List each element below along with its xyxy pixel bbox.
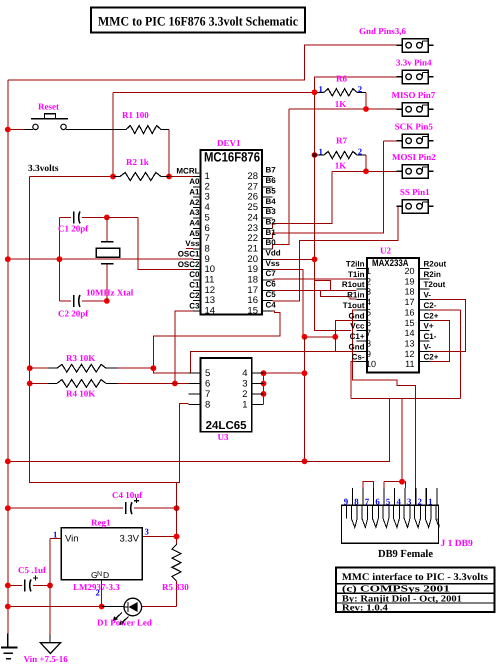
svg-text:Vin +7.5-16: Vin +7.5-16 bbox=[24, 654, 69, 664]
svg-text:1: 1 bbox=[53, 530, 57, 540]
svg-text:MCRL: MCRL bbox=[176, 167, 199, 176]
svg-text:3: 3 bbox=[407, 497, 412, 507]
svg-text:R7: R7 bbox=[336, 136, 347, 146]
svg-text:C7: C7 bbox=[266, 269, 277, 278]
svg-text:Gnd Pins3,6: Gnd Pins3,6 bbox=[359, 26, 407, 36]
svg-text:C1+: C1+ bbox=[350, 332, 365, 341]
svg-text:28: 28 bbox=[247, 171, 258, 182]
svg-text:C1 20pf: C1 20pf bbox=[58, 224, 89, 234]
svg-text:R2in: R2in bbox=[424, 270, 441, 279]
svg-text:OSC1: OSC1 bbox=[178, 250, 200, 259]
svg-text:MISO Pin7: MISO Pin7 bbox=[392, 90, 436, 100]
svg-text:T2out: T2out bbox=[424, 280, 446, 289]
svg-text:2: 2 bbox=[418, 497, 423, 507]
svg-text:3: 3 bbox=[366, 287, 371, 297]
svg-text:C5 .1uf: C5 .1uf bbox=[18, 565, 47, 575]
svg-text:1K: 1K bbox=[335, 99, 347, 109]
svg-text:N: N bbox=[97, 571, 102, 578]
svg-text:2: 2 bbox=[358, 84, 363, 94]
svg-text:13: 13 bbox=[404, 338, 414, 348]
svg-text:R6: R6 bbox=[336, 74, 347, 84]
svg-text:2: 2 bbox=[242, 389, 247, 400]
svg-text:23: 23 bbox=[247, 223, 258, 234]
svg-text:2: 2 bbox=[96, 588, 101, 598]
svg-text:10MHz Xtal: 10MHz Xtal bbox=[86, 288, 134, 298]
svg-text:7: 7 bbox=[365, 497, 370, 507]
svg-text:20: 20 bbox=[404, 266, 414, 276]
svg-text:15: 15 bbox=[247, 306, 258, 317]
svg-text:DEV1: DEV1 bbox=[217, 138, 241, 148]
svg-text:5: 5 bbox=[366, 307, 371, 317]
svg-text:Vin: Vin bbox=[65, 534, 79, 545]
svg-text:MOSI Pin2: MOSI Pin2 bbox=[392, 152, 436, 162]
svg-text:C6: C6 bbox=[266, 280, 277, 289]
svg-text:C4: C4 bbox=[266, 300, 277, 309]
svg-text:R4 10K: R4 10K bbox=[66, 389, 95, 399]
svg-text:24: 24 bbox=[247, 212, 258, 223]
svg-text:24LC65: 24LC65 bbox=[206, 420, 248, 432]
svg-text:B1: B1 bbox=[266, 228, 277, 237]
svg-text:U3: U3 bbox=[218, 432, 229, 442]
svg-text:15: 15 bbox=[404, 318, 414, 328]
svg-text:7: 7 bbox=[205, 233, 210, 244]
svg-text:3.3V: 3.3V bbox=[119, 534, 139, 545]
svg-text:Reset: Reset bbox=[38, 102, 59, 112]
svg-text:2: 2 bbox=[205, 181, 210, 192]
svg-text:R1 100: R1 100 bbox=[122, 110, 149, 120]
svg-text:Vss: Vss bbox=[185, 239, 200, 248]
svg-text:B7: B7 bbox=[266, 166, 277, 175]
svg-text:MMC interface to PIC - 3.3volt: MMC interface to PIC - 3.3volts bbox=[342, 572, 488, 583]
svg-text:8: 8 bbox=[205, 243, 210, 254]
svg-text:14: 14 bbox=[404, 328, 414, 338]
svg-text:20: 20 bbox=[247, 254, 258, 265]
svg-text:A0: A0 bbox=[189, 177, 200, 186]
svg-text:4: 4 bbox=[396, 497, 401, 507]
svg-text:R1in: R1in bbox=[347, 291, 364, 300]
svg-text:C2: C2 bbox=[189, 291, 200, 300]
svg-text:C5: C5 bbox=[266, 290, 277, 299]
svg-text:R2 1k: R2 1k bbox=[126, 157, 149, 167]
svg-text:3: 3 bbox=[145, 527, 150, 537]
svg-text:6: 6 bbox=[366, 318, 371, 328]
svg-text:Reg1: Reg1 bbox=[91, 518, 111, 528]
svg-text:DB9 Female: DB9 Female bbox=[378, 548, 433, 560]
svg-text:C2+: C2+ bbox=[424, 311, 439, 320]
svg-text:6: 6 bbox=[205, 379, 210, 390]
svg-text:A2: A2 bbox=[189, 198, 200, 207]
svg-text:12: 12 bbox=[404, 349, 414, 359]
svg-text:B4: B4 bbox=[266, 197, 277, 206]
svg-text:R5 330: R5 330 bbox=[162, 582, 189, 592]
svg-text:Gnd: Gnd bbox=[349, 342, 365, 351]
svg-text:SCK Pin5: SCK Pin5 bbox=[395, 122, 434, 132]
svg-text:5: 5 bbox=[205, 368, 210, 379]
svg-text:16: 16 bbox=[404, 307, 414, 317]
svg-text:C2-: C2- bbox=[424, 301, 437, 310]
svg-text:T1in: T1in bbox=[348, 270, 365, 279]
svg-text:MC16F876: MC16F876 bbox=[204, 150, 260, 165]
svg-text:1: 1 bbox=[319, 147, 323, 157]
svg-text:Vdd: Vdd bbox=[266, 249, 281, 258]
svg-text:8: 8 bbox=[354, 497, 359, 507]
svg-text:5: 5 bbox=[386, 497, 391, 507]
svg-text:C2+: C2+ bbox=[424, 353, 439, 362]
svg-text:J 1 DB9: J 1 DB9 bbox=[441, 539, 473, 549]
svg-text:25: 25 bbox=[247, 202, 258, 213]
svg-text:6: 6 bbox=[375, 497, 380, 507]
svg-text:13: 13 bbox=[205, 295, 216, 306]
svg-text:2: 2 bbox=[366, 276, 371, 286]
svg-text:2: 2 bbox=[358, 146, 363, 156]
svg-text:18: 18 bbox=[247, 275, 258, 286]
svg-text:4: 4 bbox=[205, 202, 210, 213]
svg-text:OSC2: OSC2 bbox=[178, 260, 200, 269]
svg-text:11: 11 bbox=[405, 359, 414, 369]
svg-text:C3: C3 bbox=[189, 301, 200, 310]
svg-text:18: 18 bbox=[404, 287, 414, 297]
svg-text:1K: 1K bbox=[335, 161, 347, 171]
svg-text:9: 9 bbox=[205, 254, 210, 265]
svg-text:U2: U2 bbox=[380, 246, 391, 256]
svg-text:D: D bbox=[103, 570, 109, 580]
svg-text:V-: V- bbox=[424, 342, 432, 351]
svg-text:26: 26 bbox=[247, 192, 258, 203]
svg-text:1: 1 bbox=[242, 399, 247, 410]
svg-text:C4 10uf: C4 10uf bbox=[112, 490, 143, 500]
svg-text:B2: B2 bbox=[266, 217, 277, 226]
svg-text:17: 17 bbox=[247, 285, 258, 296]
svg-text:R3 10K: R3 10K bbox=[66, 353, 95, 363]
svg-text:10: 10 bbox=[205, 264, 216, 275]
svg-text:D1 Power Led: D1 Power Led bbox=[97, 618, 152, 628]
svg-text:1: 1 bbox=[366, 266, 371, 276]
svg-text:7: 7 bbox=[205, 389, 210, 400]
svg-text:3.3volts: 3.3volts bbox=[28, 164, 59, 174]
svg-text:Vcc: Vcc bbox=[350, 322, 365, 331]
svg-text:14: 14 bbox=[205, 306, 216, 317]
svg-text:3: 3 bbox=[205, 192, 210, 203]
svg-text:9: 9 bbox=[344, 497, 349, 507]
svg-text:5: 5 bbox=[205, 212, 210, 223]
svg-text:C2 20pf: C2 20pf bbox=[58, 309, 89, 319]
svg-text:C0: C0 bbox=[189, 270, 200, 279]
svg-text:3: 3 bbox=[242, 379, 247, 390]
svg-text:MMC to PIC 16F876 3.3volt Sche: MMC to PIC 16F876 3.3volt Schematic bbox=[98, 14, 298, 29]
svg-text:6: 6 bbox=[205, 223, 210, 234]
svg-text:9: 9 bbox=[366, 349, 371, 359]
svg-text:3.3v Pin4: 3.3v Pin4 bbox=[396, 58, 432, 68]
svg-text:A1: A1 bbox=[189, 187, 200, 196]
svg-text:22: 22 bbox=[247, 233, 258, 244]
svg-text:27: 27 bbox=[247, 181, 258, 192]
svg-text:A5: A5 bbox=[189, 229, 200, 238]
svg-text:Rev: 1.0.4: Rev: 1.0.4 bbox=[342, 603, 388, 613]
svg-text:1: 1 bbox=[205, 171, 210, 182]
svg-text:10: 10 bbox=[366, 359, 376, 369]
svg-text:4: 4 bbox=[242, 368, 247, 379]
svg-text:1: 1 bbox=[428, 497, 432, 507]
svg-text:21: 21 bbox=[247, 243, 258, 254]
svg-text:19: 19 bbox=[404, 276, 414, 286]
svg-text:V+: V+ bbox=[424, 322, 434, 331]
svg-text:Gnd: Gnd bbox=[349, 311, 365, 320]
svg-text:C1: C1 bbox=[189, 281, 200, 290]
svg-text:T2iIn: T2iIn bbox=[346, 260, 365, 269]
svg-text:(c) COMPSys 2001: (c) COMPSys 2001 bbox=[342, 584, 450, 594]
svg-text:11: 11 bbox=[205, 275, 215, 286]
svg-text:17: 17 bbox=[404, 297, 414, 307]
svg-text:C1-: C1- bbox=[424, 332, 437, 341]
svg-text:16: 16 bbox=[247, 295, 258, 306]
svg-text:MAX233A: MAX233A bbox=[372, 258, 409, 269]
svg-text:8: 8 bbox=[205, 399, 210, 410]
svg-text:R1out: R1out bbox=[342, 280, 365, 289]
svg-text:A4: A4 bbox=[189, 218, 200, 227]
svg-text:V-: V- bbox=[424, 291, 432, 300]
svg-text:7: 7 bbox=[366, 328, 371, 338]
svg-text:1: 1 bbox=[319, 84, 323, 94]
svg-text:SS Pin1: SS Pin1 bbox=[400, 187, 430, 197]
svg-text:B6: B6 bbox=[266, 176, 277, 185]
svg-text:Cs-: Cs- bbox=[352, 353, 365, 362]
svg-text:19: 19 bbox=[247, 264, 258, 275]
svg-text:B3: B3 bbox=[266, 207, 277, 216]
svg-text:Vss: Vss bbox=[266, 259, 281, 268]
svg-text:T1out: T1out bbox=[343, 301, 365, 310]
svg-text:8: 8 bbox=[366, 338, 371, 348]
svg-text:B5: B5 bbox=[266, 186, 277, 195]
svg-text:4: 4 bbox=[366, 297, 371, 307]
svg-text:A3: A3 bbox=[189, 208, 200, 217]
svg-text:12: 12 bbox=[205, 285, 216, 296]
svg-text:B0: B0 bbox=[266, 238, 277, 247]
svg-text:R2out: R2out bbox=[424, 260, 447, 269]
